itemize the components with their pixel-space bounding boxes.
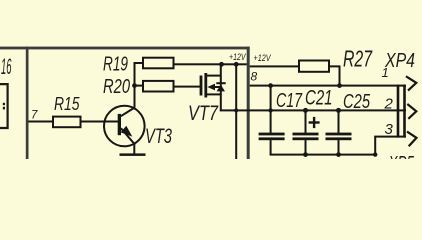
junction C17/wire2 <box>268 108 272 112</box>
ground <box>120 153 146 156</box>
substrate arrow <box>207 84 215 91</box>
block border top line <box>0 47 250 50</box>
node R20 tap <box>132 83 137 88</box>
svg-text:2: 2 <box>384 96 394 113</box>
XP4 cable line B <box>403 85 406 138</box>
resistor R20 <box>143 81 174 92</box>
block divider (left block right edge) <box>26 47 29 159</box>
wire R20 to VT7 gate <box>174 86 201 88</box>
connector fragment rectangle (left edge) <box>0 84 8 128</box>
svg-text:16: 16 <box>1 54 12 79</box>
C25 top lead <box>338 110 340 132</box>
body diode cathode bar <box>216 82 225 84</box>
vertical line from rail to bottom edge <box>235 64 237 159</box>
wire to R20 <box>135 85 144 87</box>
resistor R15 <box>53 117 81 128</box>
VT3 emitter wire down <box>133 144 135 154</box>
svg-text:R19: R19 <box>103 53 128 76</box>
svg-text:3: 3 <box>385 121 394 138</box>
C21 polarity plus <box>309 121 320 123</box>
C21 bottom lead <box>305 140 307 155</box>
junction R27/wire1 <box>337 83 342 88</box>
body diode triangle <box>217 85 225 92</box>
C17 top lead <box>270 86 272 133</box>
svg-text:VT3: VT3 <box>145 125 172 148</box>
svg-text:VT7: VT7 <box>188 102 219 125</box>
junction C17/wire1 <box>268 83 273 88</box>
arrow pin2 <box>407 104 416 119</box>
wire R15 to VT3 base <box>81 121 119 123</box>
svg-text:7: 7 <box>31 110 38 122</box>
block right border <box>247 47 250 159</box>
resistor R19 <box>143 58 174 69</box>
wire pin7 to R15 <box>28 121 53 123</box>
svg-text:+12V: +12V <box>229 52 247 63</box>
capacitor C25 <box>326 133 352 136</box>
capacitor C21 <box>293 133 319 136</box>
C17 bottom lead <box>270 140 272 155</box>
svg-text:C17: C17 <box>276 89 303 112</box>
resistor R27 <box>299 61 329 72</box>
source stub <box>207 93 221 95</box>
channel bar <box>204 73 207 98</box>
C25 bottom lead <box>338 140 340 155</box>
transistor VT7 (MOSFET) <box>200 73 226 98</box>
ground bus under capacitors <box>270 154 377 156</box>
svg-text:XP4: XP4 <box>384 50 415 72</box>
junction C21/wire2 <box>303 108 308 113</box>
transistor VT3 <box>104 106 145 147</box>
junction bus/riser <box>373 152 377 156</box>
arrow pin3 <box>407 132 417 147</box>
wire R27 right + down to wire1 <box>329 66 340 85</box>
gate bar <box>200 76 203 96</box>
riser to wire 3 <box>374 137 376 155</box>
wire R19 to +12V rail <box>174 63 247 65</box>
svg-text:C25: C25 <box>343 90 370 113</box>
wire 2 (VT7 source to XP4 pin2) <box>220 109 406 111</box>
junction C25/bus <box>336 152 341 157</box>
capacitor C17 <box>259 133 285 136</box>
svg-text:XP5: XP5 <box>388 153 415 159</box>
VT3 collector wire up <box>134 62 136 108</box>
XP4 cable line A <box>397 85 400 138</box>
connector contact dots <box>3 103 5 105</box>
+12V rail junction dot 2 <box>234 62 239 67</box>
wire 1: pin 8 to XP4 pin1 <box>250 85 406 87</box>
svg-text:1: 1 <box>382 65 389 80</box>
junction C21/bus <box>303 152 308 157</box>
wire to R19 <box>135 62 144 64</box>
svg-text:8: 8 <box>251 70 258 84</box>
+12V rail junction dot (VT7 drain) <box>219 62 224 67</box>
wire border to R27 <box>250 65 299 67</box>
svg-text:C21: C21 <box>305 87 333 110</box>
svg-text:R27: R27 <box>343 45 373 71</box>
svg-text:R15: R15 <box>54 94 80 114</box>
svg-text:R20: R20 <box>103 75 130 98</box>
C21 top lead <box>305 110 307 132</box>
VT7 drain/source vertical line <box>220 64 222 111</box>
junction wire2 x line <box>234 108 238 112</box>
svg-text:+12V: +12V <box>254 53 272 64</box>
junction C25/wire2 <box>336 108 341 113</box>
drain stub <box>207 75 221 77</box>
wire 3 to XP4 pin3 <box>374 136 406 138</box>
arrow pin1 <box>406 76 416 90</box>
